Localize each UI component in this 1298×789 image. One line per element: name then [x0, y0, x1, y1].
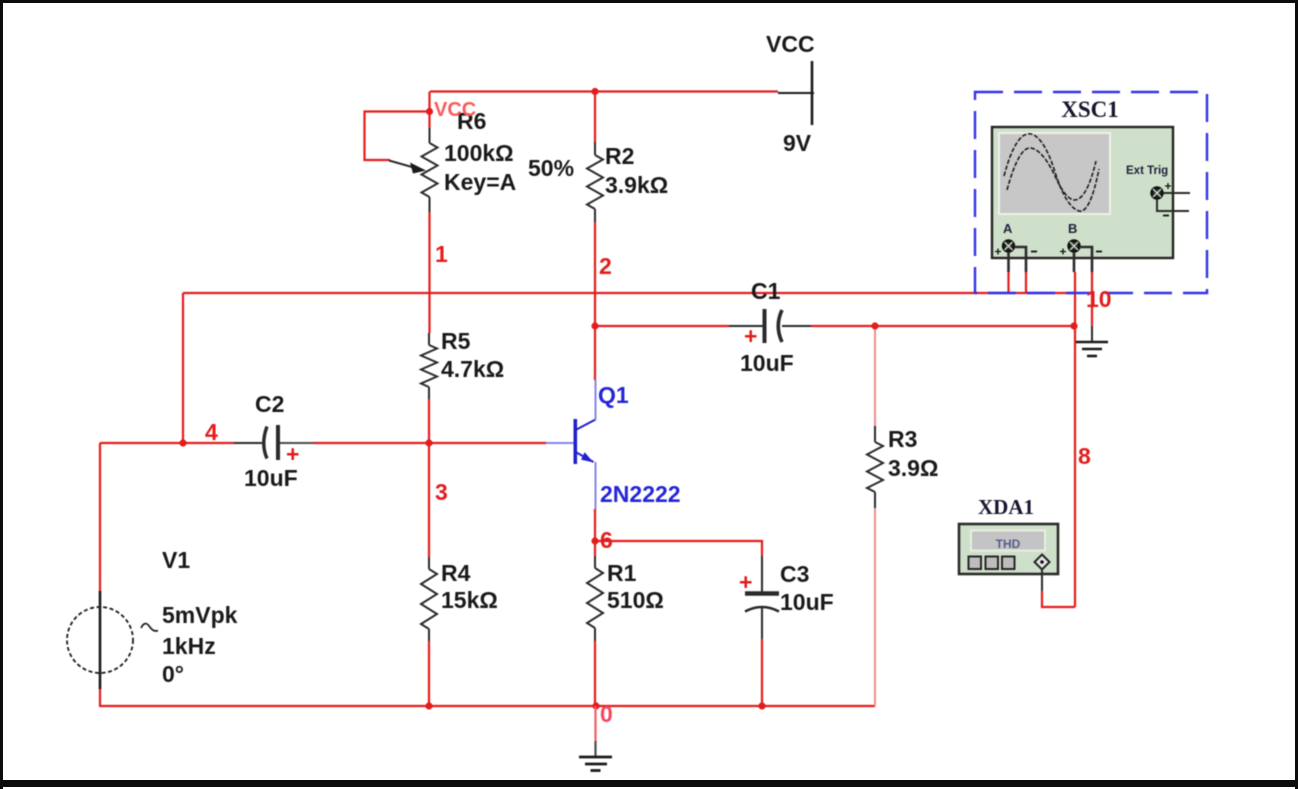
svg-text:A: A — [1003, 221, 1013, 236]
potentiometer R6 — [389, 128, 438, 212]
label R5 — [441, 328, 504, 382]
svg-text:XSC1: XSC1 — [1061, 97, 1119, 122]
label R2 — [605, 143, 668, 198]
wire scope A plus stub — [1007, 272, 1009, 293]
wire node 10 drop to node 4 — [182, 293, 184, 443]
svg-text:B: B — [1068, 221, 1077, 236]
scope terminal Ext Trig — [1152, 183, 1190, 216]
frame border — [0, 0, 1298, 3]
wire R1 to ground rail — [594, 641, 596, 707]
capacitor C1 — [729, 309, 811, 343]
label V1 — [162, 547, 238, 687]
AC source V1 — [67, 591, 158, 689]
svg-text:3.9Ω: 3.9Ω — [888, 455, 938, 481]
scope terminal B — [1060, 241, 1102, 272]
svg-text:100kΩ: 100kΩ — [444, 140, 514, 166]
wire node 10 horizontal — [183, 292, 1075, 294]
svg-text:6: 6 — [600, 527, 613, 553]
svg-text:C3: C3 — [780, 561, 809, 587]
resistor R1 — [587, 556, 603, 641]
wire R3 branch — [874, 326, 876, 706]
svg-text:VCC: VCC — [434, 99, 476, 121]
svg-text:5mVpk: 5mVpk — [162, 602, 238, 628]
junction node6 — [591, 537, 598, 544]
wire node 2 (R2 to Q1 collector) — [594, 222, 596, 380]
svg-text:+: + — [739, 569, 752, 595]
svg-text:R4: R4 — [441, 560, 471, 586]
svg-text:1kHz: 1kHz — [162, 633, 216, 659]
wire pot wiper loop — [365, 112, 430, 161]
svg-text:9V: 9V — [783, 130, 812, 156]
label R3 — [888, 426, 938, 481]
svg-text:THD: THD — [996, 537, 1021, 551]
junction bottom rail / ground — [592, 702, 599, 709]
wire VCC rail to R2 — [594, 92, 596, 143]
distortion analyzer XDA1 — [959, 524, 1058, 574]
resistor R2 — [587, 142, 603, 222]
svg-text:R5: R5 — [441, 328, 471, 354]
svg-text:2: 2 — [599, 253, 612, 279]
wire node 1 (R6 to R5) — [428, 212, 430, 333]
wire scope A minus stub — [1025, 272, 1027, 293]
wire C3 bottom — [761, 639, 763, 706]
junction node2 output — [591, 322, 598, 329]
ground scope — [1076, 326, 1108, 356]
scope bounding box dashed — [975, 92, 1207, 293]
svg-text:15kΩ: 15kΩ — [441, 587, 498, 613]
svg-text:Key=A: Key=A — [444, 169, 516, 195]
junction bottom rail / C3 — [758, 702, 765, 709]
svg-text:C1: C1 — [751, 278, 781, 304]
svg-text:4: 4 — [205, 419, 218, 445]
resistor R4 — [421, 557, 437, 641]
svg-text:10uF: 10uF — [244, 465, 298, 491]
svg-text:3.9kΩ: 3.9kΩ — [605, 172, 668, 198]
svg-text:+: + — [744, 323, 757, 349]
svg-text:50%: 50% — [528, 155, 574, 181]
svg-text:V1: V1 — [162, 547, 190, 573]
wire scope B minus stub — [1091, 272, 1093, 326]
oscilloscope XSC1 — [992, 127, 1173, 258]
wire VCC rail to R6 — [428, 92, 430, 129]
junction output / R3 — [871, 322, 878, 329]
junction node4 / node3 column — [425, 439, 432, 446]
scope terminal A — [995, 241, 1037, 272]
svg-text:510Ω: 510Ω — [607, 587, 664, 613]
capacitor C2 — [234, 425, 314, 460]
wire R4 to ground rail — [428, 641, 430, 707]
label R1 — [607, 560, 664, 613]
label R4 — [441, 560, 498, 613]
wire output node2 horizontal — [595, 325, 1074, 327]
svg-text:4.7kΩ: 4.7kΩ — [441, 356, 504, 382]
svg-text:XDA1: XDA1 — [978, 495, 1034, 519]
svg-text:1: 1 — [435, 241, 448, 267]
transistor Q1 — [546, 380, 596, 509]
label C2 — [244, 391, 299, 491]
svg-text:+: + — [286, 441, 299, 467]
svg-text:10uF: 10uF — [740, 350, 794, 376]
resistor R5 — [421, 333, 437, 399]
wire scope B plus long vertical node8 — [1074, 272, 1076, 607]
VCC power symbol — [778, 61, 814, 125]
svg-text:R1: R1 — [607, 560, 637, 586]
svg-text:8: 8 — [1078, 443, 1091, 469]
ground node0 — [579, 706, 612, 771]
wire top VCC rail — [430, 90, 778, 92]
svg-text:R2: R2 — [605, 143, 634, 169]
svg-text:VCC: VCC — [766, 31, 815, 57]
XDA1 output terminal — [1035, 555, 1050, 592]
wire node6 horizontal — [595, 541, 762, 556]
wire V1 bottom lead — [99, 688, 101, 705]
svg-text:R3: R3 — [888, 426, 917, 452]
wire node 4 horizontal — [100, 442, 546, 444]
svg-text:Q1: Q1 — [598, 382, 629, 408]
svg-text:0: 0 — [600, 701, 613, 727]
label C1 — [740, 278, 794, 376]
svg-text:2N2222: 2N2222 — [600, 481, 681, 507]
svg-text:Ext Trig: Ext Trig — [1126, 165, 1168, 177]
resistor R3 — [867, 426, 883, 508]
junction pot loop — [426, 108, 433, 115]
svg-text:10: 10 — [1086, 286, 1112, 312]
wire node 6 (Q1 emitter to R1) — [594, 509, 596, 556]
wire V1 top lead — [99, 443, 101, 592]
svg-text:0°: 0° — [162, 661, 184, 687]
label C3 — [739, 561, 834, 615]
svg-text:3: 3 — [435, 479, 448, 505]
wire node 3 (R5 to R4) — [428, 399, 430, 557]
junction output / node8 — [1070, 322, 1077, 329]
label Q1 — [598, 382, 681, 507]
junction node4 / node10 drop — [179, 439, 186, 446]
svg-text:C2: C2 — [255, 391, 284, 417]
wire ground rail node 0 — [99, 705, 875, 707]
junction top rail / R2 — [591, 88, 598, 95]
capacitor C3 — [745, 556, 779, 639]
label R6 — [444, 108, 516, 195]
junction bottom rail / R4 — [425, 702, 432, 709]
svg-text:10uF: 10uF — [780, 589, 834, 615]
wire XDA1 to node8 — [1042, 591, 1075, 607]
